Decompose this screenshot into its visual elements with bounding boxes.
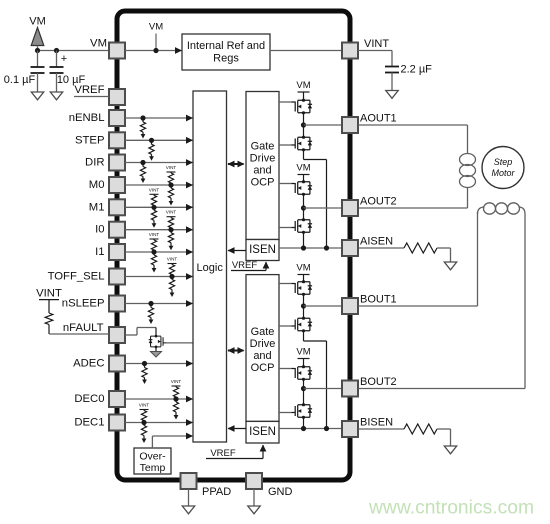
wire AISEN to resistor	[358, 247, 404, 249]
svg-text:Drive: Drive	[250, 338, 276, 350]
pin VREF	[109, 89, 125, 105]
power tap VM bridge A2	[296, 163, 310, 182]
svg-text:VM: VM	[296, 263, 310, 274]
label 2.2uF	[401, 64, 433, 76]
wire I0 to Logic	[125, 226, 193, 233]
label pin nFAULT	[63, 322, 104, 334]
wire A3 source to AOUT2 node	[303, 196, 305, 209]
svg-text:nFAULT: nFAULT	[63, 322, 104, 334]
wire TOFF_SEL to Logic	[125, 273, 193, 280]
label pin AOUT2	[360, 196, 397, 208]
junction at 0.1uF cap	[35, 48, 40, 53]
pin AOUT2	[342, 200, 358, 216]
label pin M1	[89, 201, 105, 213]
bidirectional arrow Logic-GateDriveA	[228, 161, 245, 168]
net label VREF B	[210, 448, 236, 459]
wire winding A to AOUT2	[358, 187, 468, 208]
wire AOUT1 node to low FET	[303, 125, 305, 136]
junction rail A at FET A2 branch	[324, 245, 329, 250]
label pin AISEN	[360, 236, 393, 248]
label pin BOUT1	[360, 294, 397, 306]
svg-text:VINT: VINT	[166, 210, 177, 215]
ground BISEN	[444, 446, 456, 454]
pin AISEN	[342, 240, 358, 256]
node AOUT2	[301, 205, 306, 210]
ground nFAULT FET	[151, 352, 162, 358]
wire FET source to ground	[155, 347, 157, 352]
svg-text:AOUT2: AOUT2	[360, 196, 397, 208]
wire VREF B to ISEN	[206, 445, 266, 459]
wire BOUT2 node to pin	[304, 388, 343, 390]
pin nENBL	[109, 110, 125, 126]
capacitor 10uF	[50, 51, 68, 93]
pin PPAD	[181, 473, 197, 489]
label pin STEP	[75, 134, 105, 146]
pin VINT	[342, 43, 358, 59]
label pin BOUT2	[360, 376, 397, 388]
pin GND	[246, 473, 262, 489]
wire M0 to Logic	[125, 182, 193, 189]
svg-text:ADEC: ADEC	[73, 358, 104, 370]
transistor low-side B4	[292, 403, 313, 419]
inductor winding A	[460, 154, 476, 188]
svg-text:ISEN: ISEN	[249, 244, 276, 256]
transistor high-side B1	[292, 280, 313, 296]
label pin VREF	[74, 84, 104, 96]
wire DEC1 to Logic	[125, 419, 193, 426]
label pin VM	[90, 38, 107, 50]
block Logic	[193, 91, 227, 442]
transistor high-side B3	[292, 365, 313, 381]
divider resistors M1 to VINT	[149, 187, 160, 228]
wire gate B3	[279, 368, 292, 370]
bidirectional arrow Logic-GateDriveB	[228, 347, 245, 354]
wire M1 to Logic	[125, 204, 193, 211]
svg-text:VINT: VINT	[36, 288, 62, 300]
transistor high-side A3	[292, 180, 313, 196]
transistor low-side A2	[292, 136, 313, 152]
label pin VINT	[364, 38, 389, 50]
svg-text:BISEN: BISEN	[360, 417, 393, 429]
pin DEC0	[109, 391, 125, 407]
pulldown resistor nENBL	[140, 115, 145, 138]
label 10uF	[57, 74, 86, 86]
label pin ADEC	[73, 358, 104, 370]
junction rail B at FET B2 branch	[324, 426, 329, 431]
label pin nSLEEP	[62, 298, 105, 310]
ground PPAD	[182, 506, 194, 514]
pin VM	[109, 43, 125, 59]
label pin M0	[89, 179, 105, 191]
wire BOUT1 to winding B	[358, 212, 478, 306]
divider resistors DEC1 to VINT	[139, 403, 150, 444]
block ISEN B	[246, 421, 279, 443]
wire A4 source to ISEN rail	[303, 234, 305, 249]
watermark	[368, 498, 534, 519]
pin TOFF_SEL	[109, 269, 125, 285]
svg-text:VREF: VREF	[210, 448, 236, 459]
svg-text:VREF: VREF	[232, 260, 258, 271]
wire nSLEEP to Logic	[125, 300, 193, 307]
wire BOUT1 node to low FET	[303, 306, 305, 317]
svg-text:Gate: Gate	[251, 326, 275, 338]
wire VM pin to Internal Ref	[125, 47, 182, 54]
pin BOUT2	[342, 381, 358, 397]
svg-text:Over-: Over-	[139, 451, 166, 463]
svg-text:VINT: VINT	[171, 379, 182, 384]
ground AISEN	[444, 262, 456, 270]
divider resistors DEC0 to VINT	[171, 379, 182, 420]
block ISEN A	[246, 240, 279, 261]
wire FET gate to Logic	[166, 342, 193, 344]
wire VINT to cap	[358, 51, 392, 67]
wire BISEN resistor to ground	[437, 429, 451, 446]
wire VREF A to ISEN	[231, 262, 269, 271]
svg-text:0.1 µF: 0.1 µF	[4, 74, 36, 86]
svg-text:OCP: OCP	[251, 362, 275, 374]
net label VINT external pullup	[36, 288, 62, 300]
svg-text:www.cntronics.com: www.cntronics.com	[368, 498, 534, 519]
node BOUT2	[301, 386, 306, 391]
divider resistors I0 to VINT	[166, 210, 177, 251]
svg-text:VINT: VINT	[149, 187, 160, 192]
svg-text:VINT: VINT	[149, 232, 160, 237]
svg-text:VINT: VINT	[139, 403, 150, 408]
pulldown resistor ADEC	[142, 361, 147, 384]
svg-text:BOUT1: BOUT1	[360, 294, 397, 306]
ground below 2.2uF	[386, 91, 398, 99]
wire GND to ground	[253, 489, 255, 506]
wire B3 source to BOUT2 node	[303, 381, 305, 389]
svg-text:Step: Step	[494, 157, 513, 167]
wire Internal Ref to VINT pin	[270, 50, 342, 52]
pin nSLEEP	[109, 296, 125, 312]
junction rail B at FET B4	[301, 426, 306, 431]
wire gate B4	[279, 412, 292, 414]
power tap VM bridge B2	[296, 347, 310, 367]
wire nENBL to Logic	[125, 115, 193, 122]
wire ADEC to Logic	[125, 360, 193, 367]
power symbol VM arrow	[31, 28, 44, 51]
svg-text:VM: VM	[90, 38, 107, 50]
capacitor 2.2uF	[385, 67, 399, 91]
svg-text:BOUT2: BOUT2	[360, 376, 397, 388]
wire STEP to Logic	[125, 137, 193, 144]
transistor open-drain nFAULT	[149, 335, 167, 348]
svg-text:M0: M0	[89, 179, 105, 191]
divider resistors I1 to VINT	[149, 232, 160, 273]
wire B2 source to ISEN rail	[304, 332, 327, 429]
inductor winding B	[478, 203, 526, 214]
pulldown resistor STEP	[149, 138, 154, 161]
svg-text:VM: VM	[296, 163, 310, 174]
power tap VM bridge B1	[296, 263, 310, 282]
step motor	[482, 147, 524, 189]
sense resistor BISEN	[404, 424, 437, 434]
divider resistors TOFF_SEL to VINT	[167, 257, 178, 298]
svg-text:2.2 µF: 2.2 µF	[401, 64, 433, 76]
svg-text:Logic: Logic	[197, 262, 224, 274]
label pin TOFF_SEL	[48, 271, 105, 283]
wire nFAULT to open-drain FET	[125, 328, 156, 337]
IC boundary DRV8825	[117, 11, 350, 480]
node AOUT1	[301, 122, 306, 127]
label pin nENBL	[69, 112, 105, 124]
pin AOUT1	[342, 117, 358, 133]
label pin DIR	[85, 157, 104, 169]
pulldown resistor DIR	[140, 160, 145, 183]
svg-text:and: and	[253, 350, 271, 362]
svg-text:GND: GND	[268, 486, 293, 498]
junction VM internal tap	[153, 48, 158, 53]
transistor low-side B2	[292, 317, 313, 333]
arrow ISEN A to Logic	[228, 247, 247, 254]
transistor low-side A4	[292, 218, 313, 234]
junction rail A at FET A4	[301, 245, 306, 250]
arrow ISEN B to Logic	[228, 425, 247, 432]
pin M0	[109, 177, 125, 193]
wire AISEN resistor to ground	[437, 248, 451, 262]
label 0.1uF	[4, 74, 36, 86]
block Gate Drive and OCP B	[246, 275, 279, 422]
svg-text:STEP: STEP	[75, 134, 105, 146]
divider resistors M0 to VINT	[166, 165, 177, 206]
net label VREF A	[232, 260, 258, 271]
wire ISEN rail A	[279, 247, 342, 249]
wire DEC0 to Logic	[125, 396, 193, 403]
wire VREF external stub	[74, 96, 109, 98]
wire AOUT1 node to pin	[304, 124, 343, 126]
wire A2 source to ISEN rail	[304, 151, 327, 248]
svg-text:TOFF_SEL: TOFF_SEL	[48, 271, 105, 283]
wire PPAD to ground	[188, 489, 190, 506]
pin I0	[109, 222, 125, 238]
net tap VM internal	[149, 22, 163, 51]
svg-text:AISEN: AISEN	[360, 236, 393, 248]
wire gate A3	[279, 183, 292, 185]
wire A1 source to AOUT1 node	[303, 114, 305, 125]
svg-text:Temp: Temp	[140, 462, 166, 474]
wire DIR to Logic	[125, 159, 193, 166]
svg-text:VM: VM	[296, 347, 310, 358]
svg-text:Gate: Gate	[251, 141, 275, 153]
pin I1	[109, 244, 125, 260]
svg-text:I1: I1	[95, 246, 104, 258]
wire ISEN rail B	[279, 428, 342, 430]
wire BISEN to resistor	[358, 428, 404, 430]
svg-text:VM: VM	[149, 22, 163, 33]
net label VM (top-left)	[29, 16, 46, 28]
svg-text:VREF: VREF	[74, 84, 104, 96]
sense resistor AISEN	[404, 243, 437, 253]
pin DIR	[109, 155, 125, 171]
power tap VM bridge A1	[296, 80, 310, 100]
svg-text:M1: M1	[89, 201, 105, 213]
capacitor 0.1uF	[31, 51, 45, 93]
transistor high-side A1	[292, 99, 313, 115]
svg-text:VINT: VINT	[364, 38, 389, 50]
label pin GND	[268, 486, 293, 498]
junction at 10uF cap	[54, 48, 59, 53]
pin ADEC	[109, 356, 125, 372]
pullup resistor nFAULT	[45, 300, 53, 334]
svg-text:Internal Ref and: Internal Ref and	[187, 40, 265, 52]
wire VM supply rail	[38, 50, 110, 52]
label pin BISEN	[360, 417, 393, 429]
label pin I0	[95, 224, 104, 236]
wire VINT pullup to nFAULT pin	[49, 333, 109, 335]
ground below 10uF	[50, 92, 62, 100]
svg-text:OCP: OCP	[251, 177, 275, 189]
svg-text:VM: VM	[296, 80, 310, 91]
wire gate A2	[279, 144, 292, 146]
pulldown resistor nSLEEP	[148, 301, 153, 324]
label pin DEC0	[74, 393, 104, 405]
wire AOUT2 node to pin	[304, 207, 343, 209]
wire BOUT2 node to low FET	[303, 389, 305, 405]
wire B4 source to ISEN rail	[303, 419, 305, 429]
svg-text:Motor: Motor	[491, 168, 515, 178]
label pin DEC1	[74, 417, 104, 429]
svg-text:VINT: VINT	[166, 165, 177, 170]
svg-text:nENBL: nENBL	[69, 112, 105, 124]
wire Over-Temp to Logic	[152, 433, 193, 448]
svg-text:DEC0: DEC0	[74, 393, 104, 405]
wire winding B to BOUT2	[358, 214, 525, 389]
svg-text:VINT: VINT	[167, 257, 178, 262]
wire gate B2	[279, 325, 292, 327]
pin DEC1	[109, 415, 125, 431]
block Internal Ref and Regs	[182, 34, 270, 70]
label pin PPAD	[202, 486, 231, 498]
pin nFAULT	[109, 327, 125, 343]
svg-text:AOUT1: AOUT1	[360, 113, 397, 125]
wire B1 source to BOUT1 node	[303, 296, 305, 307]
svg-text:PPAD: PPAD	[202, 486, 231, 498]
wire AOUT1 to winding A	[358, 125, 468, 154]
svg-text:I0: I0	[95, 224, 104, 236]
svg-text:DEC1: DEC1	[74, 417, 104, 429]
label pin I1	[95, 246, 104, 258]
svg-text:nSLEEP: nSLEEP	[62, 298, 105, 310]
wire gate A4	[279, 227, 292, 229]
svg-text:Regs: Regs	[213, 53, 239, 65]
svg-text:and: and	[253, 165, 271, 177]
svg-text:Drive: Drive	[250, 153, 276, 165]
svg-text:+: +	[61, 53, 67, 65]
pin STEP	[109, 132, 125, 148]
block Gate Drive and OCP A	[246, 92, 279, 240]
label pin AOUT1	[360, 113, 397, 125]
wire gate B1	[279, 283, 292, 285]
pin BISEN	[342, 421, 358, 437]
wire AOUT2 node to low FET	[303, 208, 305, 219]
ground GND	[248, 506, 260, 514]
wire BOUT1 node to pin	[304, 305, 343, 307]
wire gate A1	[279, 101, 292, 103]
wire I1 to Logic	[125, 249, 193, 256]
node BOUT1	[301, 303, 306, 308]
block Over-Temp	[134, 448, 171, 474]
pin M1	[109, 199, 125, 215]
pin BOUT1	[342, 298, 358, 314]
ground below 0.1uF	[31, 92, 43, 100]
svg-text:ISEN: ISEN	[249, 426, 276, 438]
svg-text:DIR: DIR	[85, 157, 104, 169]
